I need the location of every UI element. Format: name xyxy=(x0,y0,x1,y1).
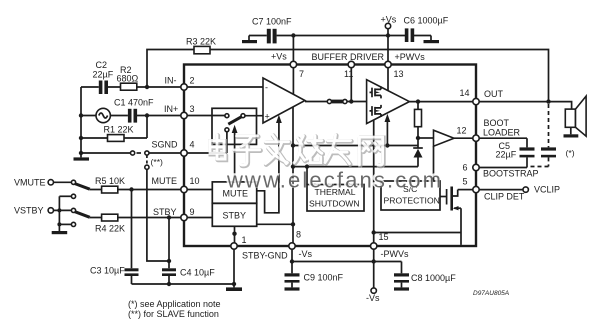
wire pin15 external to -Vs terminal xyxy=(366,249,380,303)
wire mute control arrow to amp1 xyxy=(257,115,282,213)
resistor R4 22K xyxy=(90,214,181,233)
svg-text:R4 22K: R4 22K xyxy=(95,224,125,234)
pin 14 xyxy=(460,88,504,105)
svg-text:C1 470nF: C1 470nF xyxy=(114,98,154,108)
IC U1 outline TDA7293 xyxy=(184,65,476,247)
svg-text:STBY: STBY xyxy=(223,211,247,221)
svg-text:BOOTSTRAP: BOOTSTRAP xyxy=(483,169,539,179)
capacitor C3 10uF xyxy=(90,190,139,285)
wire pin3 internal xyxy=(187,114,229,118)
resistor R2 680ohm xyxy=(117,65,139,90)
svg-text:SHUTDOWN: SHUTDOWN xyxy=(309,199,360,209)
wire amp3 to SC protection xyxy=(433,146,435,181)
svg-text:BUFFER DRIVER: BUFFER DRIVER xyxy=(312,52,385,62)
pin 12 xyxy=(457,118,521,141)
wire feedback line xyxy=(145,50,551,104)
svg-text:8: 8 xyxy=(296,230,301,240)
ground (pin1) xyxy=(226,287,242,291)
svg-text:12: 12 xyxy=(457,126,467,136)
wire pin5 external VCLIP xyxy=(479,185,560,195)
resistor R5 10K xyxy=(90,176,181,193)
switch SW-mute xyxy=(54,180,90,198)
wire -Vs bottom rail xyxy=(292,259,402,263)
svg-text:MUTE: MUTE xyxy=(152,176,178,186)
svg-text:-Vs: -Vs xyxy=(366,293,380,303)
svg-text:BOOT: BOOT xyxy=(484,118,510,128)
speaker LS1 xyxy=(564,96,587,158)
wire pin4 internal to switch xyxy=(187,132,227,153)
wire bias rail1 with arrow into amp2 xyxy=(293,114,418,148)
capacitor C2 22uF xyxy=(93,60,114,94)
svg-text:CLIP DET: CLIP DET xyxy=(484,192,525,202)
wire pin9 internal xyxy=(187,217,212,219)
switch box (mute switch) xyxy=(212,108,257,144)
svg-text:+: + xyxy=(265,112,270,122)
svg-text:-PWVs: -PWVs xyxy=(381,249,409,259)
pin 1 xyxy=(231,235,288,261)
ground (switch common) xyxy=(52,196,67,234)
capacitor C8 1000uF xyxy=(394,262,456,288)
wire SGND net with jumper xyxy=(81,151,181,155)
svg-text:(**) for SLAVE function: (**) for SLAVE function xyxy=(128,309,219,319)
wire top supply rail xyxy=(249,35,431,37)
wire amp1 out with slave link xyxy=(305,99,367,103)
svg-text:C6 1000µF: C6 1000µF xyxy=(404,16,449,26)
svg-text:6: 6 xyxy=(463,163,468,173)
wire IN- net xyxy=(81,86,181,88)
svg-text:5: 5 xyxy=(463,177,468,187)
resistor R3 22K xyxy=(186,37,216,54)
svg-text:STBY-GND: STBY-GND xyxy=(242,251,288,261)
pin 5 xyxy=(463,177,525,202)
capacitor C1 470nF xyxy=(114,98,154,123)
wire pin13 internal to amp2 top xyxy=(387,68,389,91)
wire pin15 internal rail to amp2 bottom xyxy=(372,120,376,243)
ground (C6 side) xyxy=(424,36,440,44)
wire thermal to rail2 xyxy=(305,164,309,184)
svg-text:14: 14 xyxy=(460,88,470,98)
capacitor C5 22uF xyxy=(479,138,534,167)
wire stby to -Vs rail xyxy=(257,223,293,225)
pin 15 xyxy=(371,232,409,259)
wire amp2 out to pin14 xyxy=(409,99,473,103)
watermark www.elecfans.com xyxy=(225,166,441,192)
wire pin8 external xyxy=(290,249,294,274)
wire -Vs internal rail xyxy=(291,107,295,243)
svg-text:SGND: SGND xyxy=(152,140,179,150)
svg-text:R5 10K: R5 10K xyxy=(95,176,125,186)
wire to amp3 input xyxy=(418,137,434,139)
svg-text:C9 100nF: C9 100nF xyxy=(304,273,344,283)
svg-text:15: 15 xyxy=(379,232,389,242)
svg-text:C2: C2 xyxy=(96,60,108,70)
capacitor C5 alternative (dashed) xyxy=(527,104,556,167)
svg-text:7: 7 xyxy=(299,69,304,79)
pin 3 xyxy=(164,104,195,119)
capacitor C9 100nF xyxy=(285,273,344,288)
ground (input) xyxy=(74,151,90,161)
svg-text:IN+: IN+ xyxy=(164,104,178,114)
svg-text:STBY: STBY xyxy=(153,207,177,217)
node +Vs terminal xyxy=(381,15,397,29)
svg-text:PROTECTION: PROTECTION xyxy=(384,196,440,206)
MUTE block xyxy=(212,182,256,203)
source VIN generator xyxy=(96,108,110,122)
resistor R1 22K xyxy=(81,116,147,142)
svg-text:D97AU805A: D97AU805A xyxy=(473,290,509,297)
transistor Q1 clip detect mosfet xyxy=(374,187,461,245)
switch SW-stby xyxy=(54,208,90,226)
svg-text:C3 10µF: C3 10µF xyxy=(90,266,125,276)
node VSTBY terminal xyxy=(14,206,54,216)
svg-text:R1 22K: R1 22K xyxy=(104,125,134,135)
svg-text:3: 3 xyxy=(190,104,195,114)
capacitor C6 1000uF xyxy=(404,16,449,43)
STBY block xyxy=(212,203,256,226)
svg-text:VSTBY: VSTBY xyxy=(14,206,44,216)
svg-text:10: 10 xyxy=(190,176,200,186)
switch internal lever xyxy=(225,114,245,132)
node (**) slave terminal xyxy=(145,155,163,169)
wire slave link down to C4 xyxy=(147,169,169,261)
wire pin7 internal to amp1 top xyxy=(292,68,294,94)
svg-text:(**): (**) xyxy=(151,157,164,167)
svg-text:C4 10µF: C4 10µF xyxy=(180,268,215,278)
svg-text:+Vs: +Vs xyxy=(271,52,287,62)
svg-text:680Ω: 680Ω xyxy=(117,74,139,84)
svg-text:-Vs: -Vs xyxy=(299,249,313,259)
pin 2 xyxy=(165,76,195,91)
wire bottom ground rail xyxy=(132,283,235,285)
label D97AU805A xyxy=(473,290,509,297)
op-amp A1 input stage xyxy=(263,78,305,123)
svg-text:(*): (*) xyxy=(566,148,575,158)
wire input left rail xyxy=(79,87,83,153)
svg-text:22µF: 22µF xyxy=(93,70,114,80)
wire switch out to amp1 + xyxy=(245,115,263,117)
pin 8 xyxy=(289,230,313,260)
pin 9 xyxy=(153,207,195,221)
capacitor C7 100nF xyxy=(252,17,292,44)
pin 13 xyxy=(385,52,425,79)
svg-text:1: 1 xyxy=(242,235,247,245)
pin 7 xyxy=(271,52,304,80)
svg-text:22µF: 22µF xyxy=(496,150,517,160)
wire IN+ net xyxy=(81,113,181,117)
zener diode internal xyxy=(413,138,423,167)
op-amp A2 buffer driver power stage xyxy=(367,80,410,124)
wire pin1 internal from blocks xyxy=(232,226,236,243)
node VMUTE terminal xyxy=(14,178,54,188)
wire +Vs terminal to pin13 xyxy=(386,29,390,62)
THERMAL SHUTDOWN block xyxy=(307,185,364,212)
ground (C8) xyxy=(394,287,409,290)
svg-text:2: 2 xyxy=(190,76,195,86)
svg-text:IN-: IN- xyxy=(165,76,177,86)
ground (C7 side) xyxy=(242,36,257,44)
capacitor C4 10uF xyxy=(162,218,215,287)
pin 10 xyxy=(152,176,200,193)
pin 6 xyxy=(463,163,539,179)
svg-text:www.elecfans.com: www.elecfans.com xyxy=(226,168,441,193)
svg-text:(*) see Application note: (*) see Application note xyxy=(128,299,221,309)
svg-text:C8 1000µF: C8 1000µF xyxy=(411,273,456,283)
transistor glyph lower (inside A2) xyxy=(370,105,382,117)
wire pin7 to rail xyxy=(291,33,295,61)
op-amp A3 boot loader driver xyxy=(434,130,473,146)
wire pin1 to ground xyxy=(232,249,236,288)
label BUFFER DRIVER xyxy=(312,52,385,62)
wire pin5 internal xyxy=(458,189,473,191)
watermark chinese xyxy=(210,135,383,166)
svg-text:+Vs: +Vs xyxy=(381,15,397,25)
svg-text:-: - xyxy=(265,83,268,93)
svg-text:VMUTE: VMUTE xyxy=(14,178,46,188)
svg-text:C7 100nF: C7 100nF xyxy=(252,17,292,27)
wire pin10 internal xyxy=(187,189,212,191)
pin 11 xyxy=(344,61,354,79)
wire pin11 internal xyxy=(350,68,352,102)
svg-text:9: 9 xyxy=(190,207,195,217)
wire pin2 internal to amp1 - xyxy=(187,86,263,88)
svg-text:+PWVs: +PWVs xyxy=(395,52,426,62)
resistor internal (boot loader divider) xyxy=(415,102,422,141)
svg-text:OUT: OUT xyxy=(484,89,504,99)
note application xyxy=(128,299,221,319)
wire mute control arrow to switch xyxy=(232,125,238,182)
wire bias rail2 xyxy=(293,166,418,168)
pin 4 xyxy=(152,140,195,157)
svg-text:VCLIP: VCLIP xyxy=(534,185,560,195)
S/C PROTECTION block xyxy=(381,181,440,210)
wire OUT net xyxy=(479,102,571,110)
ground (C9) xyxy=(285,287,300,290)
svg-text:R3 22K: R3 22K xyxy=(186,37,216,47)
svg-text:LOADER: LOADER xyxy=(483,128,521,138)
svg-text:4: 4 xyxy=(190,140,195,150)
svg-text:13: 13 xyxy=(394,69,404,79)
transistor glyph upper (inside A2) xyxy=(370,86,382,98)
